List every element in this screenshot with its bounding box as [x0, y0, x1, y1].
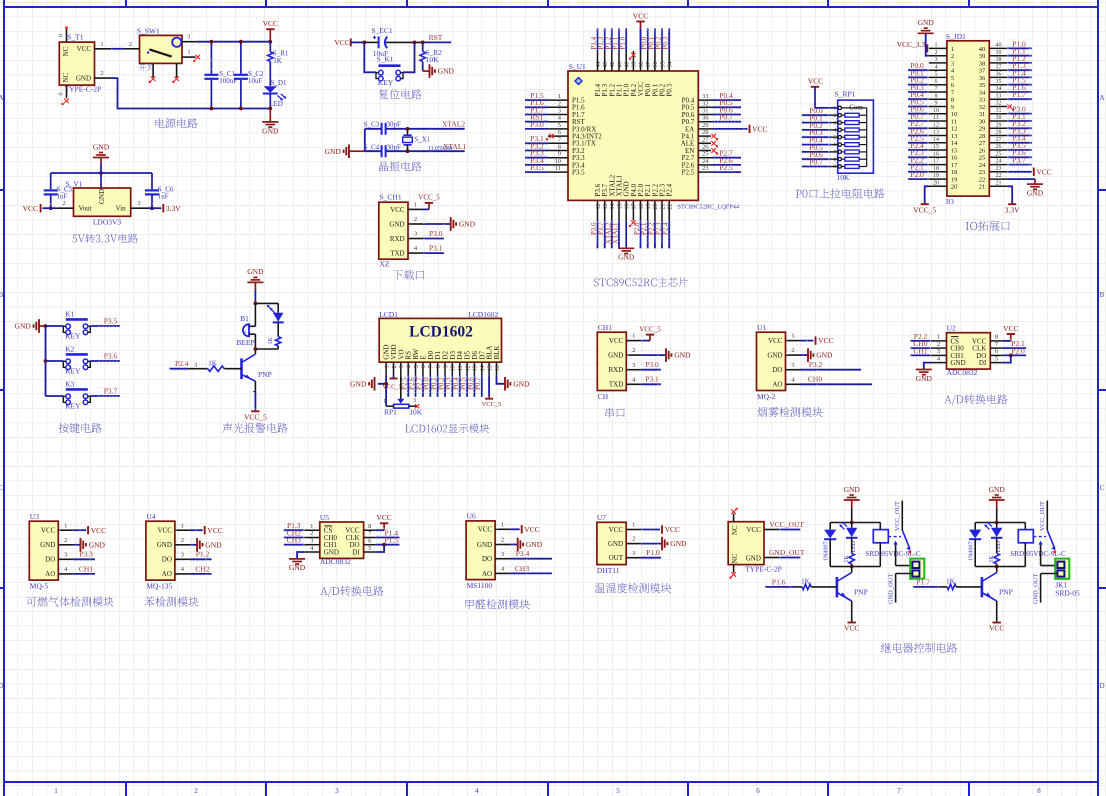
power port VCC (relay emitter) — [989, 601, 1004, 633]
connector S_CH1 download port — [379, 193, 423, 269]
potentiometer RP1 10K (LCD) — [383, 398, 423, 416]
svg-text:VCC: VCC — [91, 526, 106, 535]
svg-text:K3: K3 — [65, 380, 74, 389]
connector S_JD1 IO expansion — [929, 32, 1007, 206]
svg-text:RP1: RP1 — [384, 407, 397, 416]
svg-text:BLK: BLK — [493, 346, 501, 360]
svg-text:GND: GND — [608, 540, 623, 548]
net P3.5 (U1 left) — [525, 163, 548, 173]
diode 1N4007 (flyback) — [823, 523, 836, 567]
svg-text:9: 9 — [443, 365, 449, 368]
svg-text:U2: U2 — [947, 324, 956, 333]
svg-text:43: 43 — [603, 62, 609, 68]
svg-text:4: 4 — [935, 64, 938, 70]
svg-text:3: 3 — [413, 398, 416, 404]
svg-text:5: 5 — [951, 75, 954, 82]
wire T1.GND to ground rail — [111, 74, 270, 109]
svg-text:2: 2 — [558, 100, 561, 107]
svg-text:U7: U7 — [597, 513, 606, 522]
svg-text:Vin: Vin — [116, 205, 127, 213]
svg-text:DO: DO — [45, 556, 55, 564]
relay switch contact — [1033, 501, 1057, 566]
svg-text:15: 15 — [951, 147, 958, 154]
svg-text:P0.3: P0.3 — [666, 83, 674, 96]
net VCC_OUT (supply) — [769, 520, 807, 532]
no-connect X pin 28 — [711, 134, 718, 140]
svg-text:S_U1: S_U1 — [569, 62, 586, 71]
svg-text:0: 0 — [59, 34, 65, 37]
svg-text:44: 44 — [596, 62, 602, 68]
svg-text:D: D — [1099, 682, 1104, 690]
svg-text:16: 16 — [933, 151, 939, 157]
svg-text:VCC_5: VCC_5 — [913, 205, 936, 214]
svg-text:U1: U1 — [757, 323, 766, 332]
svg-text:DO: DO — [482, 555, 492, 563]
svg-text:S_JD1: S_JD1 — [946, 32, 966, 41]
power port VCC (U3) — [60, 526, 106, 535]
MCU S_U1 STC89C52RC_LQFP44 — [548, 51, 740, 220]
title 苯检测模块 — [144, 597, 198, 607]
svg-text:DHT11: DHT11 — [597, 566, 620, 575]
svg-text:CH1: CH1 — [913, 346, 927, 355]
key S_K1 — [376, 54, 403, 87]
net P0.4 (U1 right) — [713, 91, 741, 101]
wire alarm bottom node — [254, 347, 279, 354]
net P0.1 (JD1 left) — [908, 68, 929, 78]
svg-text:3: 3 — [937, 348, 940, 355]
power port VCC (relay emitter) — [844, 601, 859, 633]
svg-text:VCC: VCC — [633, 11, 648, 20]
svg-text:S_T1: S_T1 — [67, 33, 84, 42]
net P2.5 (LCD pin 4) — [400, 375, 409, 397]
svg-text:XTAL2: XTAL2 — [442, 119, 465, 128]
svg-text:KEY: KEY — [65, 402, 81, 411]
svg-text:VCC: VCC — [207, 526, 222, 535]
svg-text:GND: GND — [93, 143, 110, 152]
svg-text:8: 8 — [951, 97, 954, 104]
power port GND (U3) — [60, 538, 106, 552]
svg-text:XTAL1: XTAL1 — [612, 222, 620, 244]
key K3 — [63, 380, 90, 411]
no-connect X (JD1 pin 32) — [1008, 104, 1015, 110]
net P1.2 (U1 top) — [604, 28, 613, 51]
wire to key K1 — [46, 325, 64, 327]
net P3.0 (download RXD) — [423, 229, 444, 242]
power port VCC (EA pin) — [713, 121, 768, 134]
net P1.7 (U1 left) — [525, 105, 548, 115]
no-connect X pin 27 — [711, 141, 718, 147]
title 可燃气体检测模块 — [27, 597, 114, 607]
svg-text:VCC_5: VCC_5 — [244, 412, 267, 421]
sensor U6 MS1100 — [466, 512, 510, 591]
svg-text:VCC: VCC — [77, 45, 92, 53]
net P0.0 (LCD pin 7) — [422, 375, 431, 397]
title 温湿度检测模块 — [595, 583, 671, 593]
power port GND (JD1 pin22) — [1007, 179, 1043, 197]
svg-text:27: 27 — [996, 137, 1002, 143]
net P0.4 (JD1 left) — [908, 90, 929, 100]
svg-text:1uF: 1uF — [158, 193, 169, 201]
svg-text:33: 33 — [702, 93, 709, 100]
wire alarm top node — [254, 302, 279, 306]
net P3.4 (JD1 right) — [1007, 134, 1032, 144]
wire relay bottom rail — [975, 565, 1025, 569]
svg-text:NC: NC — [62, 46, 70, 56]
svg-text:P3.5: P3.5 — [572, 169, 585, 177]
svg-text:29: 29 — [996, 122, 1002, 128]
svg-text:2: 2 — [833, 113, 836, 119]
svg-text:1K: 1K — [208, 359, 217, 367]
net P2.4 with base resistor 1K — [169, 359, 241, 371]
net P0.6 (JD1 left) — [908, 105, 929, 115]
svg-text:1: 1 — [935, 43, 938, 49]
svg-text:GND: GND — [916, 374, 933, 383]
connector S_T1 TYPE-C-2P — [59, 26, 112, 105]
svg-text:11: 11 — [951, 118, 957, 125]
svg-text:AO: AO — [162, 570, 172, 578]
net P0.5 (LCD pin 12) — [459, 375, 468, 397]
svg-text:GND: GND — [746, 555, 761, 563]
net P2.7 (U1 right) — [713, 149, 741, 159]
power port VCC_5 (download) — [418, 194, 440, 213]
svg-text:1: 1 — [951, 46, 954, 53]
svg-text:29: 29 — [979, 126, 986, 133]
svg-text:RXD: RXD — [390, 235, 405, 243]
power port GND (U7) — [641, 537, 687, 551]
svg-text:Vout: Vout — [79, 205, 92, 213]
svg-text:1N4007: 1N4007 — [823, 542, 829, 561]
net P1.3 (U1 top) — [597, 28, 606, 51]
power port GND (U6) — [497, 538, 543, 552]
net P2.6 (U1 right) — [713, 156, 741, 166]
net P0.5 (U1 right) — [713, 98, 741, 108]
no-connect X pin 26 — [711, 148, 718, 154]
svg-text:24: 24 — [702, 158, 709, 165]
svg-text:S_X1: S_X1 — [414, 136, 430, 144]
svg-text:VCC_5: VCC_5 — [639, 325, 661, 333]
svg-text:SRD-05VDC-SL-C: SRD-05VDC-SL-C — [1010, 550, 1066, 558]
svg-text:GND_OUT: GND_OUT — [1032, 573, 1039, 604]
svg-text:28: 28 — [702, 129, 709, 136]
power port VCC (JD1 pin23) — [1007, 164, 1052, 177]
svg-text:GND: GND — [289, 563, 306, 572]
svg-text:15: 15 — [933, 144, 939, 150]
svg-text:DI: DI — [979, 359, 987, 367]
transistor Q PNP (alarm) — [242, 354, 272, 381]
resistor 1K (relay LED) — [844, 538, 854, 567]
net P1.4 (U5 CLK) — [376, 528, 400, 538]
svg-text:37: 37 — [996, 64, 1002, 70]
net P2.6 (LCD pin 5) — [408, 375, 417, 397]
svg-text:23: 23 — [996, 166, 1002, 172]
title P0口上拉电阻电路 — [796, 188, 885, 198]
svg-text:P1.7: P1.7 — [1012, 90, 1026, 99]
svg-text:3: 3 — [632, 550, 635, 557]
svg-text:GND: GND — [262, 126, 279, 135]
svg-text:3.3V: 3.3V — [166, 204, 181, 213]
sensor U3 MQ-5 — [29, 512, 73, 591]
net P1.3 (JD1 right) — [1007, 61, 1032, 71]
ADC U2 ADC0832 — [931, 324, 1003, 377]
svg-text:GND: GND — [205, 540, 222, 549]
title 按键电路 — [58, 423, 101, 433]
net P1.7 (JD1 right) — [1007, 90, 1032, 100]
svg-text:GND: GND — [477, 541, 492, 549]
svg-text:3: 3 — [310, 538, 313, 545]
svg-text:S_EC1: S_EC1 — [371, 26, 393, 35]
svg-text:AO: AO — [482, 570, 492, 578]
title 复位电路 — [379, 89, 422, 99]
svg-text:2: 2 — [414, 216, 417, 223]
net CH3 (U5 left) — [284, 536, 305, 546]
svg-text:10: 10 — [451, 365, 457, 371]
svg-text:10K: 10K — [409, 407, 423, 416]
net P2.5 (U1 right) — [713, 163, 741, 173]
net P1.1 (U1 top) — [611, 28, 620, 51]
svg-text:30: 30 — [996, 115, 1002, 121]
title STC89C52RC主芯片 — [594, 277, 688, 286]
net P2.3 (U1 bottom) — [654, 220, 663, 248]
svg-text:S_RP1: S_RP1 — [835, 89, 856, 98]
svg-text:IO: IO — [946, 197, 954, 206]
net P2.4 (U1 bottom) — [661, 220, 670, 248]
svg-text:13: 13 — [933, 130, 939, 136]
svg-text:42: 42 — [610, 62, 616, 68]
net P3.3 (U3 DO) — [60, 550, 95, 561]
svg-text:3: 3 — [951, 60, 954, 67]
net P3.6 (U1 bottom) — [590, 220, 599, 248]
title IO拓展口 — [966, 221, 1010, 231]
net XTAL2 (U1 bottom) — [604, 220, 613, 248]
svg-text:U5: U5 — [320, 513, 329, 522]
net P3.7 (JD1 right) — [1007, 156, 1032, 166]
svg-text:MQ-2: MQ-2 — [757, 392, 776, 401]
svg-text:VCC: VCC — [524, 525, 539, 534]
title 声光报警电路 — [222, 423, 287, 433]
svg-text:10K: 10K — [426, 55, 440, 64]
svg-text:11: 11 — [555, 165, 561, 172]
svg-text:GND: GND — [918, 18, 935, 27]
svg-text:VCC_OUT: VCC_OUT — [769, 520, 804, 529]
net P0.1 (LCD pin 8) — [430, 375, 439, 397]
power port VCC (U5) — [376, 513, 392, 530]
svg-text:18: 18 — [951, 169, 958, 176]
capacitor S_EC1 10uF electrolytic — [362, 26, 422, 58]
svg-text:21: 21 — [979, 184, 986, 191]
svg-text:8: 8 — [558, 144, 561, 151]
svg-text:GND: GND — [951, 359, 966, 367]
svg-text:8: 8 — [368, 523, 371, 530]
svg-text:CH: CH — [598, 392, 609, 401]
title 电源电路 — [155, 118, 197, 128]
svg-text:VCC: VCC — [1036, 167, 1051, 176]
svg-text:1K: 1K — [946, 577, 955, 585]
net P0.3 (LCD pin 10) — [444, 375, 453, 397]
svg-text:10: 10 — [555, 158, 562, 165]
svg-text:NC: NC — [62, 72, 70, 82]
svg-text:GND: GND — [844, 485, 861, 494]
svg-text:GND: GND — [438, 67, 455, 76]
svg-text:1: 1 — [310, 523, 313, 530]
net P1.0 (U7 OUT) — [641, 548, 670, 559]
svg-text:16: 16 — [495, 365, 501, 371]
capacitor S_C5 1uF — [44, 173, 73, 210]
svg-text:10K: 10K — [837, 173, 851, 182]
net P2.1 (JD1 left) — [908, 163, 929, 173]
svg-text:3: 3 — [64, 551, 67, 558]
net P3.1 (download TXD) — [423, 244, 444, 257]
svg-text:36: 36 — [653, 62, 659, 68]
svg-text:3: 3 — [558, 108, 561, 115]
svg-text:31: 31 — [702, 108, 709, 115]
svg-text:2: 2 — [937, 341, 940, 348]
svg-text:CH0: CH0 — [808, 375, 822, 384]
svg-text:32: 32 — [702, 100, 709, 107]
svg-text:35: 35 — [660, 62, 666, 68]
svg-text:16: 16 — [951, 155, 958, 162]
svg-text:TXD: TXD — [609, 381, 623, 389]
svg-text:VCC: VCC — [752, 125, 767, 134]
net P1.6 with base resistor 1K — [765, 577, 837, 589]
svg-text:1: 1 — [187, 48, 190, 55]
svg-text:2: 2 — [392, 365, 398, 368]
svg-text:34: 34 — [979, 89, 986, 96]
svg-text:16: 16 — [625, 204, 631, 210]
power port GND (U1 bottom) — [618, 220, 635, 261]
svg-text:34: 34 — [668, 62, 674, 68]
wire button common — [44, 324, 48, 396]
power port GND (power circuit) — [262, 109, 279, 136]
svg-text:3: 3 — [399, 365, 405, 368]
svg-text:1: 1 — [54, 787, 58, 795]
svg-text:D: D — [0, 682, 4, 690]
svg-text:14: 14 — [933, 137, 939, 143]
power port GND (U4) — [176, 538, 222, 552]
svg-text:33: 33 — [996, 93, 1002, 99]
svg-text:1N4007: 1N4007 — [968, 542, 974, 561]
svg-text:PNP: PNP — [258, 370, 272, 379]
power port VCC_3.3 (JD1 pin1) — [897, 40, 928, 52]
power port GND (reset) — [423, 64, 455, 78]
net P0.3 (RP1) — [802, 128, 838, 138]
resistor 1K (alarm LED) — [268, 322, 281, 349]
svg-text:10uF: 10uF — [248, 77, 263, 85]
svg-text:GND: GND — [89, 540, 106, 549]
svg-text:40: 40 — [996, 43, 1002, 49]
wire U2 DI to DO — [1003, 355, 1011, 362]
net P3.2 (JD1 right) — [1007, 119, 1032, 129]
net P3.4 (U1 left) — [525, 156, 548, 166]
power port VCC (U6) — [497, 525, 540, 534]
svg-text:VCC: VCC — [818, 336, 833, 345]
svg-text:1: 1 — [100, 41, 103, 48]
svg-text:GND: GND — [608, 352, 623, 360]
svg-text:A: A — [1099, 94, 1104, 102]
svg-text:9: 9 — [935, 101, 938, 107]
title 继电器控制电路 — [881, 643, 957, 653]
svg-text:22: 22 — [668, 204, 674, 210]
svg-text:P1.7: P1.7 — [916, 577, 930, 586]
svg-text:VCC: VCC — [263, 19, 278, 28]
svg-text:P0.7: P0.7 — [809, 157, 823, 166]
net CH0 (U2 left) — [911, 339, 932, 349]
svg-text:24: 24 — [979, 162, 986, 169]
svg-text:VCC_5: VCC_5 — [418, 194, 440, 202]
svg-text:KEY: KEY — [65, 367, 81, 376]
power port GND (alarm) — [247, 267, 264, 304]
svg-text:3: 3 — [833, 120, 836, 126]
LED S_D1 — [263, 79, 287, 110]
net P0.0 (RP1) — [802, 106, 838, 116]
svg-text:2: 2 — [501, 537, 504, 544]
svg-text:8: 8 — [436, 365, 442, 368]
power port VCC (U1 top) — [633, 11, 648, 51]
power port VCC_5 (alarm) — [244, 381, 267, 421]
svg-text:9: 9 — [951, 104, 954, 111]
svg-text:1K: 1K — [273, 57, 282, 65]
power port VCC (power circuit) — [263, 19, 278, 44]
key K2 — [63, 345, 90, 376]
svg-text:17: 17 — [933, 159, 939, 165]
resistor S_R1 1K — [268, 42, 289, 86]
svg-text:36: 36 — [979, 75, 986, 82]
svg-text:13: 13 — [951, 133, 958, 140]
svg-text:P3.1: P3.1 — [645, 375, 659, 384]
svg-text:28: 28 — [996, 130, 1002, 136]
svg-text:TXD: TXD — [390, 250, 404, 258]
net P2.4 (JD1 left) — [908, 141, 929, 151]
svg-text:MQ-135: MQ-135 — [146, 582, 172, 591]
svg-text:6: 6 — [421, 365, 427, 368]
resistor pack S_RP1 10K — [833, 89, 873, 182]
svg-text:VCC: VCC — [334, 38, 349, 47]
relay coil SRD-05VDC-SL-C — [1010, 523, 1066, 567]
svg-text:20: 20 — [951, 184, 958, 191]
svg-text:GND: GND — [459, 220, 476, 229]
net P1.5 (JD1 right) — [1007, 76, 1032, 86]
power port VCC (reset) — [334, 38, 364, 47]
svg-text:S_CH1: S_CH1 — [380, 193, 402, 202]
svg-text:2: 2 — [935, 50, 938, 56]
net CH3 (U6 AO) — [497, 564, 552, 575]
net P1.1 (JD1 right) — [1007, 47, 1032, 57]
power port VCC (LDO input) — [23, 204, 57, 213]
svg-text:31: 31 — [979, 111, 986, 118]
svg-text:GND: GND — [1027, 189, 1044, 198]
wire VCC to key left — [364, 42, 376, 72]
svg-text:S_C3: S_C3 — [364, 120, 380, 128]
svg-text:7: 7 — [897, 787, 901, 795]
net XTAL1 (U1 bottom) — [611, 220, 620, 248]
svg-text:P3.5: P3.5 — [530, 163, 544, 172]
net P0.3 (JD1 left) — [908, 83, 929, 93]
svg-text:4: 4 — [475, 787, 479, 795]
power port GND (relay P1.6) — [844, 485, 861, 523]
net GND_OUT (relay) — [1032, 573, 1057, 604]
title A/D转换电路 (U5) — [320, 586, 383, 597]
svg-text:VCC: VCC — [665, 525, 680, 534]
svg-text:8: 8 — [935, 93, 938, 99]
svg-text:14: 14 — [951, 140, 958, 147]
net P3.1 (JD1 right) — [1007, 112, 1032, 122]
net P2.3 (JD1 left) — [908, 148, 929, 158]
svg-text:P3.0: P3.0 — [530, 120, 544, 129]
net P3.7 (U1 bottom) — [597, 220, 606, 248]
net P0.4 (RP1) — [802, 136, 838, 146]
resistor S_R2 10K — [420, 41, 442, 72]
net GND_OUT (supply) — [769, 548, 807, 560]
svg-text:32: 32 — [996, 101, 1002, 107]
